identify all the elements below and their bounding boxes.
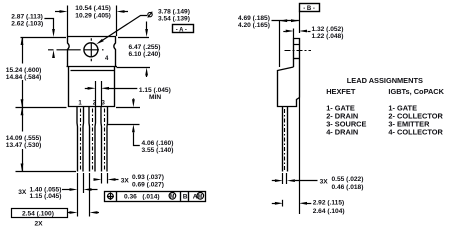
svg-text:2.64 (.104): 2.64 (.104): [313, 208, 345, 215]
svg-text:6.47 (.255): 6.47 (.255): [129, 44, 161, 51]
svg-text:4- DRAIN: 4- DRAIN: [326, 127, 358, 136]
svg-text:0.69 (.027): 0.69 (.027): [132, 181, 164, 188]
svg-text:4: 4: [105, 56, 109, 62]
svg-text:1.15 (.045): 1.15 (.045): [139, 87, 171, 94]
svg-text:2.87 (.113): 2.87 (.113): [11, 14, 43, 21]
svg-text:4.06 (.160): 4.06 (.160): [142, 140, 174, 147]
svg-text:3.54 (.139): 3.54 (.139): [158, 16, 190, 23]
svg-text:4.20 (.165): 4.20 (.165): [238, 22, 270, 29]
svg-text:3X: 3X: [121, 177, 130, 184]
svg-text:1.22 (.048): 1.22 (.048): [312, 33, 344, 40]
svg-text:0.36 (.014): 0.36 (.014): [124, 193, 160, 200]
svg-text:3X: 3X: [320, 179, 329, 186]
svg-text:M: M: [170, 194, 174, 200]
svg-text:4- COLLECTOR: 4- COLLECTOR: [388, 127, 443, 136]
svg-text:2.92 (.115): 2.92 (.115): [313, 199, 345, 206]
svg-text:4.69 (.185): 4.69 (.185): [238, 15, 270, 22]
svg-text:0.93 (.037): 0.93 (.037): [132, 174, 164, 181]
svg-text:IGBTs, CoPACK: IGBTs, CoPACK: [388, 87, 444, 96]
svg-text:1.15 (.045): 1.15 (.045): [30, 193, 62, 200]
svg-text:1: 1: [78, 100, 82, 106]
svg-text:2.62 (.103): 2.62 (.103): [11, 21, 43, 28]
svg-text:B: B: [183, 193, 188, 200]
svg-text:14.84 (.584): 14.84 (.584): [6, 74, 42, 81]
svg-text:2.54 (.100): 2.54 (.100): [22, 211, 54, 218]
svg-text:3.55 (.140): 3.55 (.140): [142, 147, 174, 154]
svg-text:LEAD ASSIGNMENTS: LEAD ASSIGNMENTS: [347, 76, 423, 85]
svg-text:15.24 (.600): 15.24 (.600): [6, 67, 42, 74]
svg-text:13.47 (.530): 13.47 (.530): [6, 142, 42, 149]
svg-text:2X: 2X: [35, 220, 44, 227]
svg-text:M: M: [198, 194, 202, 200]
svg-text:MIN: MIN: [149, 94, 161, 101]
svg-text:HEXFET: HEXFET: [326, 87, 356, 96]
svg-text:0.55 (.022): 0.55 (.022): [332, 176, 364, 183]
svg-text:6.10 (.240): 6.10 (.240): [129, 51, 161, 58]
svg-text:3X: 3X: [18, 189, 27, 196]
svg-text:10.29 (.405): 10.29 (.405): [75, 12, 111, 19]
svg-text:14.09 (.555): 14.09 (.555): [6, 135, 42, 142]
svg-text:1.32 (.052): 1.32 (.052): [312, 26, 344, 33]
svg-text:10.54 (.415): 10.54 (.415): [75, 5, 111, 12]
svg-text:0.46 (.018): 0.46 (.018): [332, 184, 364, 191]
svg-text:- B -: - B -: [303, 6, 315, 12]
svg-text:- A -: - A -: [176, 27, 187, 33]
svg-text:3.78 (.149): 3.78 (.149): [158, 9, 190, 16]
